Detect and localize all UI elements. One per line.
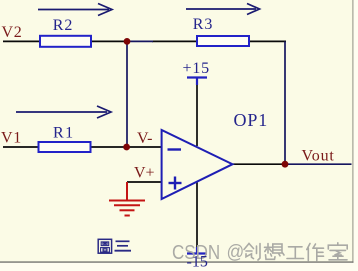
svg-text:+15: +15 bbox=[183, 60, 210, 77]
svg-text:V+: V+ bbox=[134, 165, 155, 182]
svg-text:V-: V- bbox=[137, 130, 152, 147]
svg-text:-15: -15 bbox=[187, 254, 208, 271]
svg-text:@: @ bbox=[227, 240, 245, 262]
svg-text:V1: V1 bbox=[1, 129, 22, 146]
svg-text:V2: V2 bbox=[2, 24, 23, 41]
svg-text:R1: R1 bbox=[53, 125, 75, 142]
svg-text:R2: R2 bbox=[53, 17, 73, 34]
svg-text:R3: R3 bbox=[193, 16, 213, 33]
svg-text:Vout: Vout bbox=[302, 148, 335, 165]
svg-text:OP1: OP1 bbox=[234, 110, 269, 130]
